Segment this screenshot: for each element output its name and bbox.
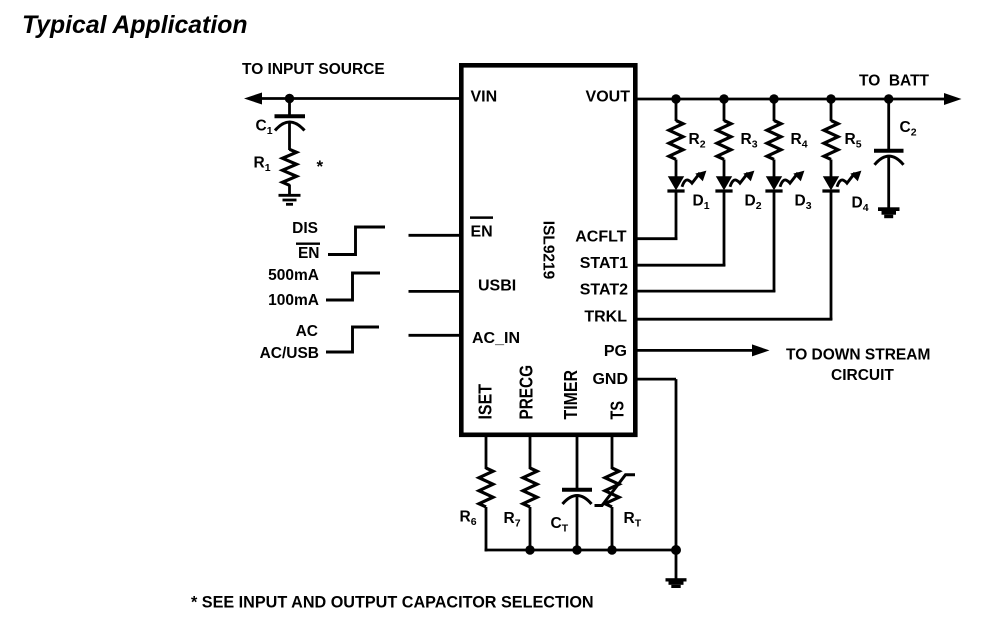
IC U1 ISL9219 body	[461, 65, 635, 435]
svg-text:R5: R5	[845, 131, 862, 151]
wire R5-D4	[830, 160, 833, 178]
svg-text:R3: R3	[741, 131, 758, 151]
ground bottom	[666, 578, 687, 588]
resistor R7	[504, 468, 538, 530]
arrow to batt	[944, 93, 962, 105]
svg-text:D2: D2	[745, 193, 762, 213]
wire R7-rail	[529, 507, 532, 550]
svg-text:*: *	[317, 157, 324, 176]
wire R2-D1	[675, 160, 678, 178]
wire ACFLT	[638, 237, 678, 240]
svg-text:TS: TS	[608, 401, 628, 420]
svg-text:RT: RT	[624, 510, 642, 530]
svg-text:C1: C1	[256, 118, 273, 138]
svg-text:PRECG: PRECG	[517, 365, 537, 420]
waveform USBI	[326, 273, 380, 300]
svg-text:R6: R6	[460, 509, 477, 529]
wire GND	[638, 379, 677, 579]
svg-text:R4: R4	[791, 131, 808, 151]
svg-text:EN: EN	[471, 223, 493, 240]
node C1 tap	[285, 94, 294, 103]
wire VOUT rail	[638, 98, 948, 101]
resistor R4	[767, 121, 808, 160]
wire TS pin	[611, 437, 614, 469]
node rail R3	[719, 94, 728, 103]
wire PRECG pin	[529, 437, 532, 469]
label EN (active low)	[296, 244, 320, 262]
wire C2 top	[887, 99, 890, 149]
svg-text:R2: R2	[689, 131, 706, 151]
node rail RT	[607, 545, 616, 554]
resistor R1	[254, 149, 297, 185]
wire STAT1	[638, 264, 726, 267]
svg-text:R1: R1	[254, 155, 271, 175]
wire TIMER pin	[576, 437, 579, 488]
capacitor CT	[551, 490, 593, 535]
svg-text:TO INPUT SOURCE: TO INPUT SOURCE	[242, 61, 385, 78]
wire ISET pin	[485, 437, 488, 469]
wire C2 bottom	[887, 157, 890, 208]
wire R4 top	[773, 99, 776, 121]
wire D1-ACFLT	[675, 193, 678, 241]
svg-text:CT: CT	[551, 515, 569, 535]
svg-text:Typical Application: Typical Application	[22, 12, 248, 39]
svg-text:ACFLT: ACFLT	[575, 228, 626, 245]
svg-text:C2: C2	[900, 119, 917, 139]
wire CT-rail	[576, 496, 579, 550]
wire R4-D3	[773, 160, 776, 178]
LED D1	[667, 171, 709, 213]
svg-text:D1: D1	[693, 193, 710, 213]
svg-text:VOUT: VOUT	[586, 89, 631, 106]
svg-text:USBI: USBI	[478, 278, 516, 295]
node rail R7	[525, 545, 534, 554]
LED D3	[765, 171, 811, 213]
wire EN pin	[409, 234, 462, 237]
waveform EN	[328, 227, 385, 255]
wire D3-STAT2	[773, 193, 776, 293]
wire AC_IN pin	[409, 334, 462, 337]
svg-text:STAT1: STAT1	[580, 255, 628, 272]
ground below C2	[878, 207, 900, 218]
arrow to input source	[244, 93, 262, 105]
wire D2-STAT1	[723, 193, 726, 267]
wire TRKL	[638, 318, 833, 321]
svg-text:D3: D3	[795, 193, 812, 213]
svg-text:100mA: 100mA	[268, 292, 319, 309]
wire R5 top	[830, 99, 833, 121]
svg-text:EN: EN	[298, 245, 320, 262]
resistor R5	[824, 121, 862, 160]
LED D4	[822, 171, 868, 215]
resistor R6	[460, 468, 494, 528]
wire R3-D2	[723, 160, 726, 178]
wire C1-R1	[288, 123, 291, 151]
wire bottom rail	[485, 549, 676, 552]
node rail R2	[671, 94, 680, 103]
wire R1-gnd	[288, 185, 291, 195]
svg-text:AC/USB: AC/USB	[260, 345, 319, 362]
svg-text:AC_IN: AC_IN	[472, 330, 520, 347]
capacitor C2	[874, 119, 917, 165]
node rail R5	[826, 94, 835, 103]
ground below R1	[279, 195, 301, 204]
wire PG	[638, 349, 756, 352]
thermistor RT	[595, 468, 642, 530]
svg-text:STAT2: STAT2	[580, 282, 628, 299]
wire C1 top	[288, 99, 291, 115]
svg-text:R7: R7	[504, 510, 521, 530]
svg-text:* SEE INPUT AND OUTPUT CAPACIT: * SEE INPUT AND OUTPUT CAPACITOR SELECTI…	[191, 594, 594, 612]
svg-text:500mA: 500mA	[268, 267, 319, 284]
svg-text:D4: D4	[852, 195, 869, 215]
svg-text:TRKL: TRKL	[584, 308, 627, 325]
svg-text:AC: AC	[296, 323, 318, 340]
wire RT-rail	[611, 507, 614, 550]
node rail R4	[769, 94, 778, 103]
wire R3 top	[723, 99, 726, 121]
wire STAT2	[638, 290, 776, 293]
resistor R3	[717, 121, 758, 160]
arrow to down stream	[752, 344, 770, 356]
node rail CT	[572, 545, 581, 554]
svg-text:ISL9219: ISL9219	[540, 221, 557, 280]
LED D2	[715, 171, 761, 213]
svg-text:TO DOWN STREAM: TO DOWN STREAM	[786, 347, 930, 364]
node rail GND	[671, 545, 681, 555]
svg-text:PG: PG	[604, 343, 627, 360]
resistor R2	[669, 121, 706, 160]
wire USBI pin	[409, 290, 462, 293]
svg-text:VIN: VIN	[471, 89, 498, 106]
wire R6-rail	[485, 507, 488, 551]
waveform AC_IN	[326, 327, 379, 352]
wire R2 top	[675, 99, 678, 121]
node rail C2	[884, 94, 893, 103]
svg-text:DIS: DIS	[292, 220, 318, 237]
wire D4-TRKL	[830, 193, 833, 321]
svg-text:ISET: ISET	[476, 384, 496, 420]
svg-text:GND: GND	[592, 371, 628, 388]
svg-text:TIMER: TIMER	[561, 370, 581, 420]
capacitor C1	[256, 116, 306, 137]
pin label EN	[470, 218, 493, 241]
svg-text:CIRCUIT: CIRCUIT	[831, 367, 894, 384]
svg-text:TO BATT: TO BATT	[859, 73, 930, 90]
wire VIN input	[256, 97, 459, 100]
